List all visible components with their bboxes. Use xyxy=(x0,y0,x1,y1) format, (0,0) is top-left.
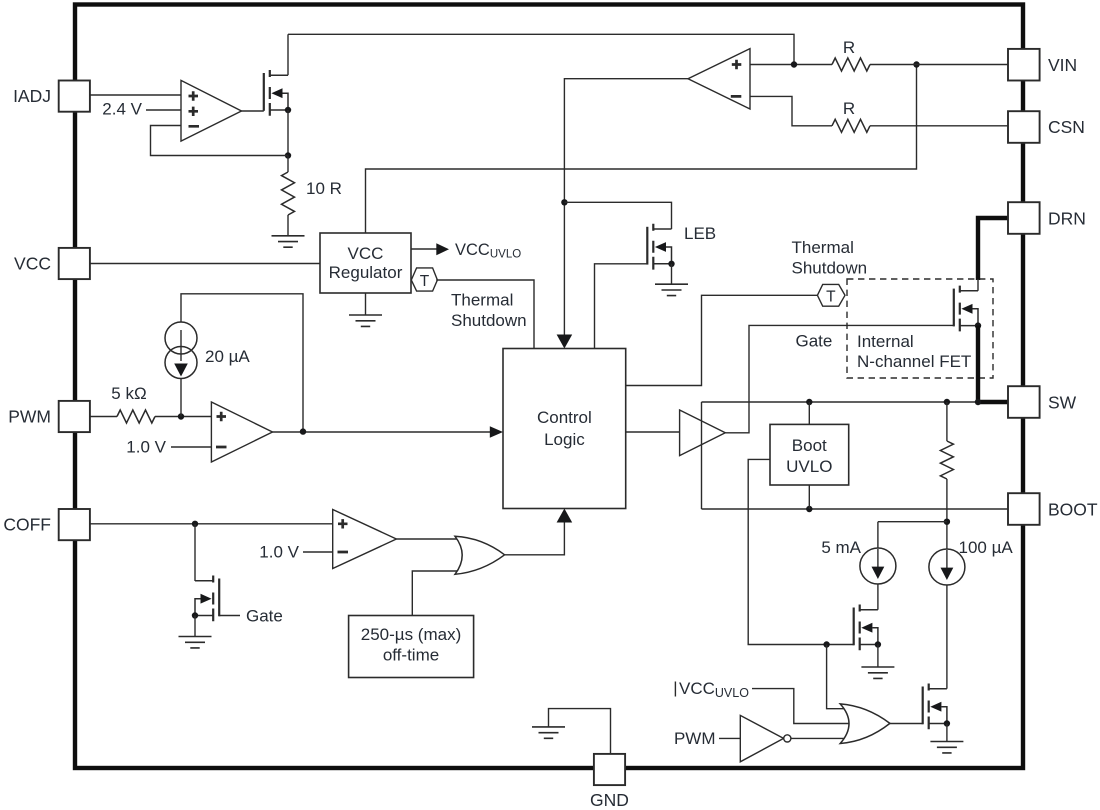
wire PWM pin to 5k resistor xyxy=(90,416,118,418)
svg-text:250-µs (max): 250-µs (max) xyxy=(361,625,461,644)
thermal sense hexagon T (right) xyxy=(817,284,845,306)
node SW junction at FET xyxy=(975,399,981,405)
pin IADJ xyxy=(59,81,90,112)
svg-text:Regulator: Regulator xyxy=(329,263,403,282)
svg-text:VCCUVLO: VCCUVLO xyxy=(455,241,521,261)
node comparator plus junction xyxy=(791,61,797,67)
svg-text:5 mA: 5 mA xyxy=(821,538,861,557)
comparator U3 (PWM) xyxy=(211,402,272,462)
wire COFF node down to discharge FET drain xyxy=(194,524,196,581)
node feedback junction xyxy=(285,152,291,158)
wire OR output to Q5 gate xyxy=(890,723,923,725)
wire U4 output to OR gate xyxy=(396,538,459,540)
svg-text:1.0 V: 1.0 V xyxy=(126,438,166,457)
pin COFF xyxy=(59,509,90,540)
wire buffer output up to internal FET gate xyxy=(725,325,954,432)
wire branch to OR gate top input xyxy=(827,645,846,709)
resistor SW to current sources xyxy=(946,402,948,441)
wire control logic to thermal hexagon (right) xyxy=(626,295,818,385)
ground near GND pin xyxy=(532,727,565,738)
svg-text:20 µA: 20 µA xyxy=(205,347,250,366)
wire U2 - input to CSN sense xyxy=(750,96,832,125)
transistor Q5 (BOOT discharge switch) xyxy=(923,684,947,730)
svg-text:2.4 V: 2.4 V xyxy=(102,100,142,119)
current source 20 uA (double circle) xyxy=(165,322,197,354)
dashed box Internal N-channel FET xyxy=(847,279,993,378)
wire SW rail xyxy=(702,401,979,403)
svg-text:VCCUVLO: VCCUVLO xyxy=(679,679,749,700)
node Q1 source junction xyxy=(285,107,291,113)
svg-text:IADJ: IADJ xyxy=(13,86,51,106)
wire 5mA source to Q4 drain xyxy=(877,584,879,610)
comparator U2 (current sense, points left) xyxy=(688,49,750,109)
pin PWM xyxy=(59,401,90,432)
wire ground to GND pin xyxy=(549,709,611,754)
svg-text:Thermal: Thermal xyxy=(792,238,854,257)
svg-text:Gate: Gate xyxy=(246,607,283,626)
pin BOOT xyxy=(1008,493,1040,525)
transistor Q1 (P-FET current mirror) xyxy=(264,70,288,116)
svg-text:COFF: COFF xyxy=(3,515,51,535)
block VCC Regulator xyxy=(320,233,411,293)
svg-text:R: R xyxy=(843,99,855,118)
wire PWM to inverter xyxy=(719,737,740,739)
node PWM divider junction xyxy=(178,413,184,419)
wire U2 + input to VIN sense xyxy=(750,64,832,66)
wire BOOT rail xyxy=(702,508,1009,510)
block 250-us max off-time xyxy=(349,616,474,678)
node Boot UVLO gate branch xyxy=(823,641,829,647)
pin VIN xyxy=(1008,49,1040,81)
wire Boot UVLO bottom to BOOT rail xyxy=(808,485,810,509)
block Boot UVLO xyxy=(770,424,849,485)
ground below LEB xyxy=(671,264,673,284)
node Q3 source junction xyxy=(975,322,981,328)
svg-text:Internal: Internal xyxy=(857,332,914,351)
wire 100uA source to Q5 drain xyxy=(946,585,948,689)
svg-text:VIN: VIN xyxy=(1048,55,1077,75)
wire control logic to gate driver buffer xyxy=(626,431,680,433)
wire thermal shutdown to control logic xyxy=(436,280,534,349)
node SW junction at resistor xyxy=(944,399,950,405)
svg-text:1.0 V: 1.0 V xyxy=(259,543,299,562)
pin SW xyxy=(1008,386,1040,418)
svg-text:R: R xyxy=(843,38,855,57)
transistor LEB xyxy=(647,224,671,270)
node current source junction xyxy=(944,519,950,525)
resistor 5 kOhm xyxy=(117,410,155,423)
wire junction up to 20uA source xyxy=(180,379,182,417)
wire VCC Regulator top to VIN rail xyxy=(366,65,917,234)
svg-text:N-channel FET: N-channel FET xyxy=(857,352,971,371)
svg-text:DRN: DRN xyxy=(1048,209,1086,229)
wire 1.0V to U4 minus input xyxy=(303,551,333,553)
wire 2.4V to op-amp U1 second + input xyxy=(146,109,181,111)
pin DRN xyxy=(1008,202,1040,234)
wire op-amp U1 output to Q1 gate xyxy=(242,110,264,112)
svg-text:Control: Control xyxy=(537,408,592,427)
node U3 output junction xyxy=(300,428,306,434)
buffer U6 (gate driver) xyxy=(680,410,726,456)
svg-text:T: T xyxy=(420,273,430,290)
node Q5 source junction xyxy=(944,720,950,726)
pin CSN xyxy=(1008,111,1040,143)
svg-text:Thermal: Thermal xyxy=(451,291,513,310)
svg-text:Shutdown: Shutdown xyxy=(451,311,527,330)
svg-text:PWM: PWM xyxy=(674,729,716,748)
resistor R (bottom, CSN) xyxy=(832,119,870,132)
op-amp U1 (IADJ error amp) xyxy=(181,80,242,141)
wire LEB drain tap xyxy=(564,202,671,229)
node Q4 source junction xyxy=(875,641,881,647)
wire OR output to control logic bottom xyxy=(505,522,565,555)
resistor 10 R xyxy=(287,156,289,173)
wire VCCUVLO to OR gate middle input xyxy=(752,689,851,724)
wire 5mA branch xyxy=(878,522,947,548)
comparator U4 (off-time, COFF) xyxy=(333,510,397,569)
wire COFF pin to comparator U4 xyxy=(90,523,333,525)
svg-text:100 µA: 100 µA xyxy=(959,538,1014,557)
wire Q2 gate stub xyxy=(219,615,240,617)
svg-text:GND: GND xyxy=(590,790,629,810)
svg-text:BOOT: BOOT xyxy=(1048,500,1098,520)
node VIN rail junction xyxy=(913,61,919,67)
or-gate U8 (3-input) xyxy=(840,704,890,744)
current source 5 mA xyxy=(860,548,896,584)
resistor R (top, VIN) xyxy=(832,58,870,71)
svg-text:SW: SW xyxy=(1048,393,1077,413)
node COFF junction xyxy=(192,521,198,527)
wire U3 output to control logic xyxy=(273,431,491,433)
transistor Q4 (boot refresh switch) xyxy=(854,605,878,651)
svg-text:Logic: Logic xyxy=(544,430,585,449)
ground below Q4 xyxy=(877,645,879,668)
svg-text:Gate: Gate xyxy=(796,332,833,351)
wire 20uA top rail to comparator output node xyxy=(181,294,303,432)
or-gate U5 (off-time OR) xyxy=(455,536,505,574)
svg-text:CSN: CSN xyxy=(1048,117,1085,137)
node SW junction at Boot UVLO xyxy=(806,399,812,405)
transistor Q2 (COFF discharge, mirrored) xyxy=(195,576,219,622)
ground below Q2 xyxy=(194,616,196,637)
thermal sense hexagon T (left) xyxy=(411,268,437,291)
wire IADJ pin to op-amp U1 + input xyxy=(90,94,182,96)
wire top rail to comparator + node xyxy=(288,34,794,64)
node Q2 source junction xyxy=(192,612,198,618)
node LEB source junction xyxy=(668,261,674,267)
wire 1.0V to U3 minus input xyxy=(171,446,211,448)
wire VCCUVLO output arrow xyxy=(411,248,437,250)
wire DRN pin to Q3 drain (thick) xyxy=(978,218,1008,280)
wire U2 output to control logic top xyxy=(564,79,688,336)
wire 250us one-shot to OR gate xyxy=(412,571,460,616)
wire inverter output to OR gate bottom input xyxy=(791,737,846,739)
svg-text:T: T xyxy=(826,288,836,305)
node BOOT junction at Boot UVLO xyxy=(806,506,812,512)
wire Q1 source down to feedback node xyxy=(287,110,289,156)
wire SW rail down to BOOT rail (driver supply) xyxy=(701,402,703,509)
wire LEB gate to control logic xyxy=(595,264,648,349)
node LEB tap junction xyxy=(561,199,567,205)
current source 100 uA xyxy=(929,549,965,585)
svg-text:VCC: VCC xyxy=(14,254,51,274)
ground below VCC Regulator xyxy=(365,293,367,315)
svg-text:Boot: Boot xyxy=(792,436,827,455)
svg-text:LEB: LEB xyxy=(684,224,716,243)
wire feedback to op-amp U1 minus input xyxy=(151,126,289,156)
wire Boot UVLO output down to Q4 gate xyxy=(748,459,854,644)
pin GND xyxy=(594,754,625,785)
ground below 10 R xyxy=(272,236,305,247)
svg-text:PWM: PWM xyxy=(8,407,51,427)
svg-text:5 kΩ: 5 kΩ xyxy=(111,384,146,403)
block Control Logic xyxy=(503,349,626,509)
wire Q3 source to SW node (thick) xyxy=(978,326,1008,402)
svg-text:VCC: VCC xyxy=(348,244,384,263)
wire Boot UVLO top to SW rail xyxy=(808,402,810,424)
pin VCC xyxy=(59,248,90,279)
inverter U7 xyxy=(740,715,783,761)
ground below Q5 xyxy=(946,724,948,742)
svg-text:UVLO: UVLO xyxy=(786,457,832,476)
svg-text:10 R: 10 R xyxy=(306,179,342,198)
svg-text:off-time: off-time xyxy=(383,646,439,665)
svg-text:Shutdown: Shutdown xyxy=(792,259,868,278)
wire VCC pin to VCC Regulator xyxy=(90,263,321,265)
wire Q1 drain up to top rail xyxy=(287,34,289,75)
transistor Q3 (internal N-channel FET) xyxy=(954,286,978,332)
